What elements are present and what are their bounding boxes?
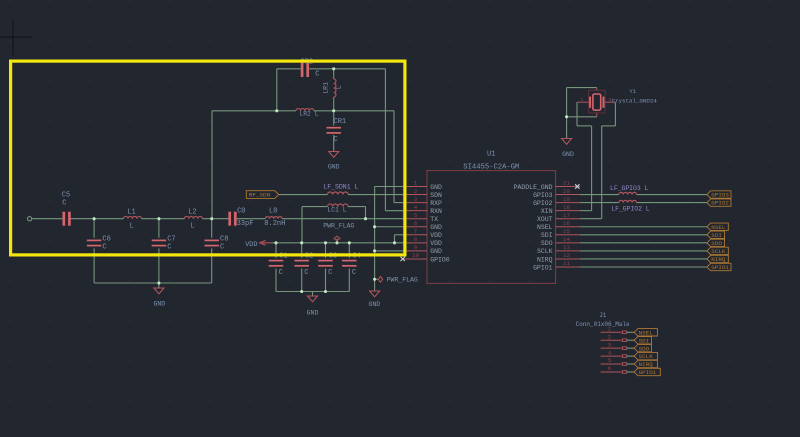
svg-text:SDI: SDI bbox=[639, 337, 650, 344]
svg-text:15: 15 bbox=[563, 228, 570, 235]
svg-text:SDI: SDI bbox=[711, 232, 722, 239]
svg-text:Conn_01x06_Male: Conn_01x06_Male bbox=[576, 321, 630, 328]
svg-text:RXP: RXP bbox=[430, 200, 442, 207]
svg-text:L: L bbox=[336, 85, 343, 89]
svg-text:PWR_FLAG: PWR_FLAG bbox=[323, 223, 354, 230]
svg-text:GND: GND bbox=[328, 164, 340, 171]
svg-text:C: C bbox=[220, 244, 224, 252]
svg-text:5: 5 bbox=[608, 357, 612, 364]
svg-text:LR2 L: LR2 L bbox=[299, 110, 318, 117]
svg-text:C: C bbox=[62, 200, 66, 208]
svg-text:PADDLE_GND: PADDLE_GND bbox=[514, 184, 553, 191]
svg-text:C: C bbox=[279, 269, 283, 277]
svg-text:16: 16 bbox=[563, 220, 570, 227]
svg-text:20: 20 bbox=[563, 188, 570, 195]
svg-text:33pF: 33pF bbox=[237, 220, 254, 228]
svg-text:3: 3 bbox=[608, 341, 612, 348]
svg-text:SDN: SDN bbox=[430, 192, 442, 199]
svg-text:C7: C7 bbox=[167, 235, 175, 243]
svg-text:14: 14 bbox=[563, 236, 570, 243]
svg-text:SDO: SDO bbox=[541, 240, 553, 247]
svg-text:GPIO3: GPIO3 bbox=[533, 192, 553, 199]
svg-text:CR1: CR1 bbox=[334, 118, 347, 126]
svg-text:GPIO1: GPIO1 bbox=[533, 264, 553, 271]
svg-text:LR1: LR1 bbox=[323, 82, 330, 94]
svg-text:SCLK: SCLK bbox=[711, 248, 726, 255]
svg-text:LF_GPIO2 L: LF_GPIO2 L bbox=[611, 205, 650, 212]
svg-text:LF_SDN1 L: LF_SDN1 L bbox=[323, 183, 358, 190]
svg-text:5: 5 bbox=[414, 212, 418, 219]
svg-text:J1: J1 bbox=[599, 312, 607, 319]
svg-text:VDD: VDD bbox=[245, 241, 257, 249]
svg-text:4: 4 bbox=[608, 349, 612, 356]
svg-text:6: 6 bbox=[414, 220, 418, 227]
svg-text:Y1: Y1 bbox=[629, 88, 636, 95]
svg-text:GPIO2: GPIO2 bbox=[711, 200, 729, 207]
svg-text:SI4455-C2A-GM: SI4455-C2A-GM bbox=[463, 164, 519, 172]
svg-text:GPIO1: GPIO1 bbox=[711, 264, 729, 271]
svg-text:GND: GND bbox=[430, 224, 442, 231]
svg-text:SDI: SDI bbox=[541, 232, 553, 239]
svg-text:U1: U1 bbox=[487, 150, 496, 158]
svg-text:3: 3 bbox=[414, 196, 418, 203]
svg-text:17: 17 bbox=[563, 212, 570, 219]
svg-text:SDO: SDO bbox=[711, 240, 722, 247]
svg-text:L1: L1 bbox=[127, 208, 135, 216]
svg-text:GPIO0: GPIO0 bbox=[430, 256, 450, 263]
svg-text:18: 18 bbox=[563, 204, 570, 211]
svg-text:PWR_FLAG: PWR_FLAG bbox=[387, 277, 418, 284]
svg-text:7: 7 bbox=[414, 228, 418, 235]
svg-text:1: 1 bbox=[414, 180, 418, 187]
svg-text:12: 12 bbox=[563, 252, 570, 259]
svg-text:8: 8 bbox=[414, 236, 418, 243]
svg-text:NIRQ: NIRQ bbox=[639, 361, 654, 368]
svg-text:VDD: VDD bbox=[430, 232, 442, 239]
svg-text:GND: GND bbox=[307, 310, 319, 317]
svg-text:NSEL: NSEL bbox=[537, 224, 553, 231]
svg-text:NIRQ: NIRQ bbox=[537, 256, 553, 263]
svg-text:GND: GND bbox=[368, 301, 380, 308]
svg-text:GPIO3: GPIO3 bbox=[711, 192, 729, 199]
svg-text:VDD: VDD bbox=[430, 240, 442, 247]
svg-text:L: L bbox=[191, 223, 195, 231]
svg-text:GND: GND bbox=[153, 301, 165, 308]
svg-text:1: 1 bbox=[581, 97, 584, 103]
svg-text:RXN: RXN bbox=[430, 208, 442, 215]
svg-text:9: 9 bbox=[414, 244, 418, 251]
svg-text:GPIO2: GPIO2 bbox=[533, 200, 553, 207]
svg-text:C: C bbox=[167, 244, 171, 252]
svg-text:C: C bbox=[315, 71, 319, 79]
svg-text:L: L bbox=[130, 223, 134, 231]
svg-text:C5: C5 bbox=[62, 191, 70, 199]
svg-text:NSEL: NSEL bbox=[639, 329, 654, 336]
svg-text:2: 2 bbox=[414, 188, 418, 195]
svg-text:C: C bbox=[352, 269, 356, 277]
svg-text:8.2nH: 8.2nH bbox=[264, 220, 285, 228]
svg-text:GND: GND bbox=[430, 184, 442, 191]
svg-text:NIRQ: NIRQ bbox=[711, 256, 726, 263]
svg-text:2: 2 bbox=[608, 333, 612, 340]
svg-text:C: C bbox=[102, 244, 106, 252]
svg-text:TX: TX bbox=[430, 216, 438, 223]
svg-text:GND: GND bbox=[562, 151, 574, 158]
svg-text:C8: C8 bbox=[220, 235, 228, 243]
svg-text:Crystal_GND24: Crystal_GND24 bbox=[612, 97, 658, 104]
svg-text:SCLK: SCLK bbox=[639, 353, 654, 360]
svg-text:11: 11 bbox=[563, 260, 570, 267]
svg-text:C: C bbox=[328, 269, 332, 277]
svg-text:XOUT: XOUT bbox=[537, 216, 553, 223]
svg-text:10: 10 bbox=[412, 252, 419, 259]
svg-text:21: 21 bbox=[563, 180, 570, 187]
svg-text:LF_GPIO3 L: LF_GPIO3 L bbox=[610, 185, 649, 192]
svg-text:C: C bbox=[304, 269, 308, 277]
svg-text:SCLK: SCLK bbox=[537, 248, 553, 255]
svg-text:L0: L0 bbox=[269, 207, 277, 215]
svg-text:C6: C6 bbox=[102, 235, 110, 243]
svg-text:SDO: SDO bbox=[639, 345, 650, 352]
svg-text:L2: L2 bbox=[188, 208, 196, 216]
svg-text:XIN: XIN bbox=[541, 208, 553, 215]
svg-text:GPIO1: GPIO1 bbox=[639, 369, 657, 376]
svg-text:LC1 L: LC1 L bbox=[327, 206, 346, 213]
svg-text:RF_SDN: RF_SDN bbox=[249, 192, 271, 199]
svg-text:C0: C0 bbox=[237, 207, 245, 215]
svg-text:4: 4 bbox=[414, 204, 418, 211]
svg-text:13: 13 bbox=[563, 244, 570, 251]
svg-text:6: 6 bbox=[608, 365, 612, 372]
svg-text:19: 19 bbox=[563, 196, 570, 203]
svg-text:NSEL: NSEL bbox=[711, 224, 726, 231]
svg-text:1: 1 bbox=[608, 326, 612, 333]
svg-text:C: C bbox=[334, 136, 338, 144]
svg-text:GND: GND bbox=[430, 248, 442, 255]
